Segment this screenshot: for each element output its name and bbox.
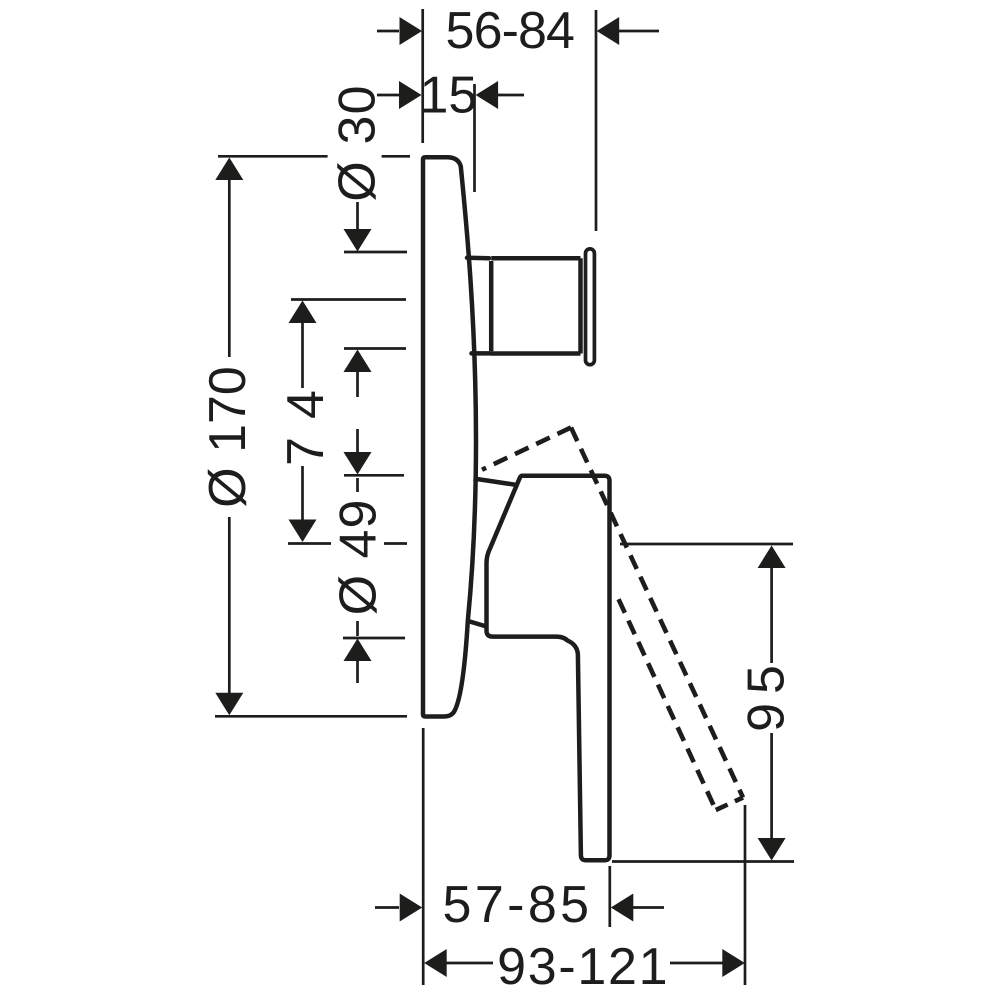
svg-text:74: 74 — [277, 372, 335, 466]
svg-text:Ø 30: Ø 30 — [329, 84, 387, 202]
svg-text:15: 15 — [419, 67, 477, 125]
svg-text:Ø 170: Ø 170 — [199, 366, 257, 508]
svg-text:57-85: 57-85 — [443, 876, 593, 934]
svg-text:95: 95 — [738, 656, 796, 732]
svg-text:56-84: 56-84 — [446, 2, 575, 60]
svg-text:93-121: 93-121 — [497, 938, 669, 996]
svg-text:Ø 49: Ø 49 — [330, 499, 388, 616]
